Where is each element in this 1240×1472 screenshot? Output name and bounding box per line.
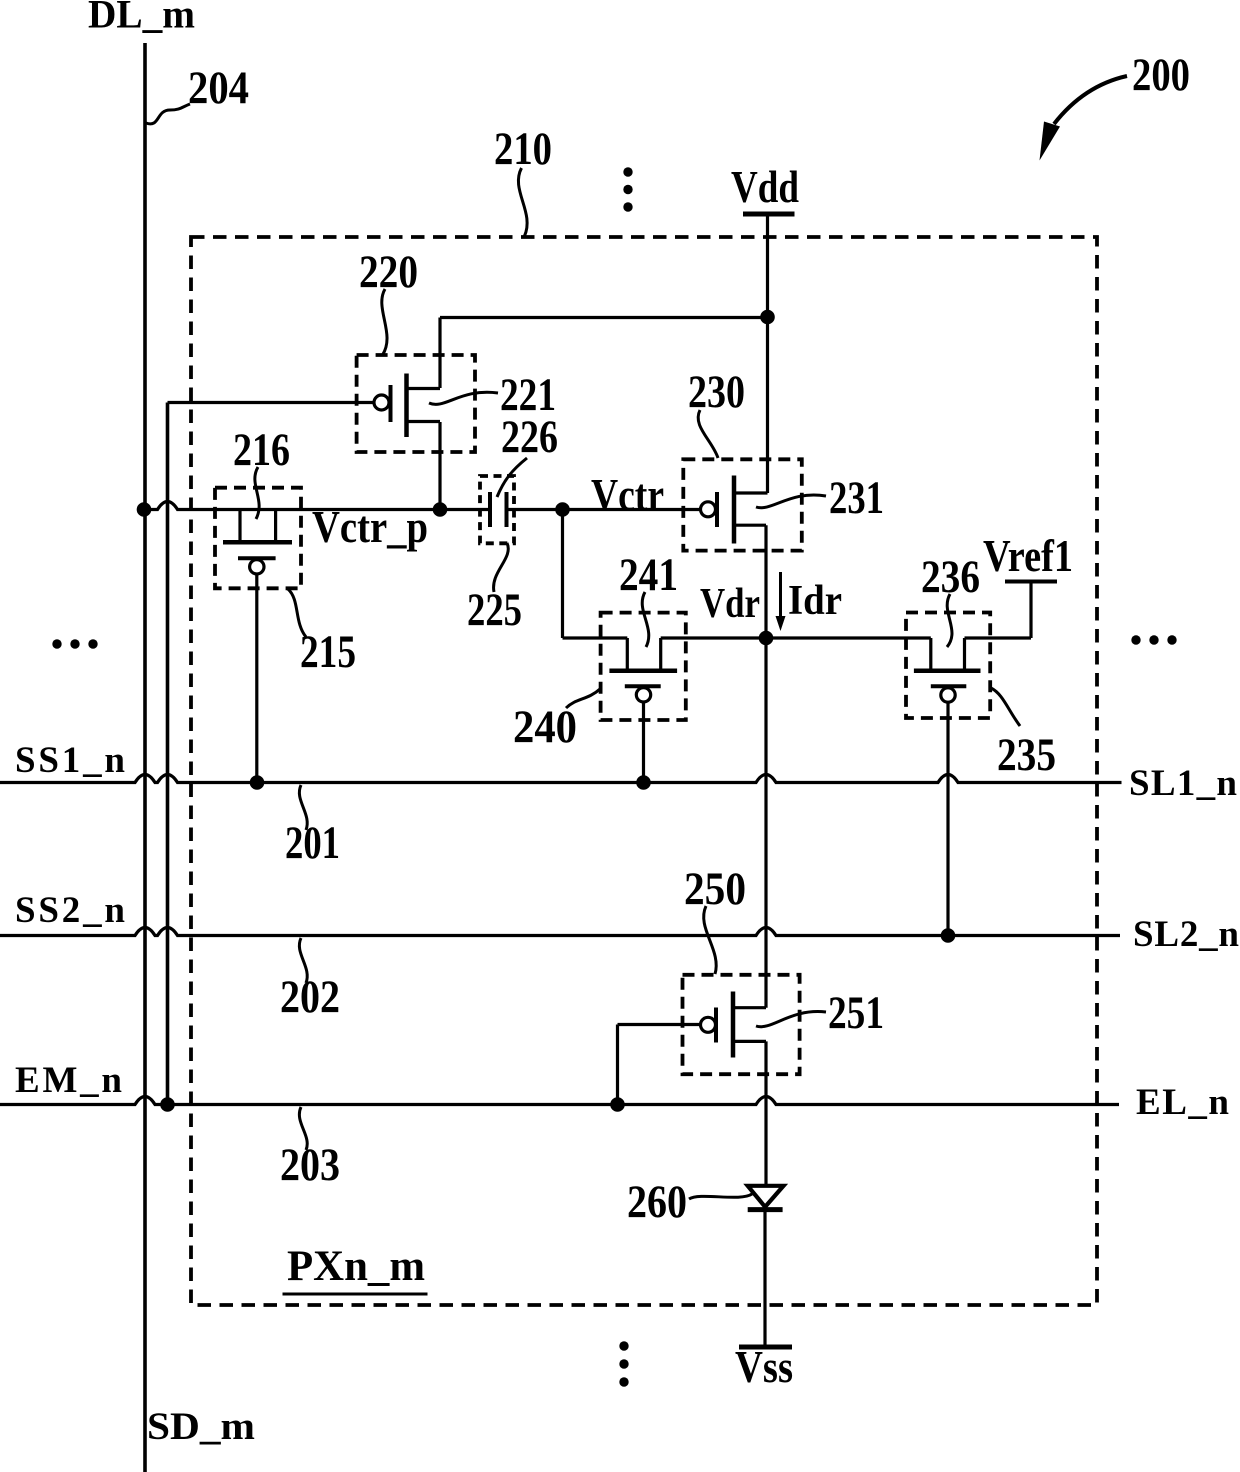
svg-text:202: 202 — [280, 971, 340, 1023]
svg-text:SL1_n: SL1_n — [1129, 763, 1237, 804]
svg-text:EM_n: EM_n — [15, 1060, 122, 1101]
svg-text:200: 200 — [1132, 49, 1190, 101]
svg-text:225: 225 — [467, 584, 522, 636]
svg-text:Vdr: Vdr — [700, 581, 760, 627]
svg-text:Vctr_p: Vctr_p — [312, 502, 428, 552]
svg-text:Vref1: Vref1 — [983, 531, 1073, 581]
svg-text:203: 203 — [280, 1139, 340, 1191]
svg-text:201: 201 — [285, 817, 340, 869]
svg-text:230: 230 — [688, 366, 745, 418]
svg-text:236: 236 — [921, 551, 980, 603]
svg-text:226: 226 — [501, 411, 558, 463]
svg-text:204: 204 — [188, 62, 249, 114]
svg-text:241: 241 — [619, 549, 678, 601]
svg-text:220: 220 — [359, 246, 418, 298]
svg-text:231: 231 — [829, 472, 884, 524]
svg-text:216: 216 — [233, 424, 290, 476]
svg-text:210: 210 — [494, 123, 552, 175]
svg-text:SS2_n: SS2_n — [15, 890, 125, 931]
svg-text:Idr: Idr — [788, 578, 842, 624]
svg-text:250: 250 — [684, 863, 746, 915]
svg-text:SL2_n: SL2_n — [1133, 914, 1239, 955]
svg-text:DL_m: DL_m — [88, 0, 195, 37]
svg-text:Vdd: Vdd — [731, 161, 799, 212]
svg-text:Vctr: Vctr — [591, 470, 664, 520]
svg-text:Vss: Vss — [735, 1341, 793, 1392]
svg-text:SS1_n: SS1_n — [15, 740, 125, 781]
svg-text:235: 235 — [997, 729, 1056, 781]
svg-text:251: 251 — [828, 987, 884, 1039]
svg-text:240: 240 — [513, 701, 577, 753]
svg-text:EL_n: EL_n — [1136, 1082, 1229, 1123]
svg-text:260: 260 — [627, 1176, 687, 1228]
svg-text:SD_m: SD_m — [147, 1405, 255, 1448]
svg-text:215: 215 — [300, 626, 356, 678]
svg-text:PXn_m: PXn_m — [287, 1243, 425, 1290]
